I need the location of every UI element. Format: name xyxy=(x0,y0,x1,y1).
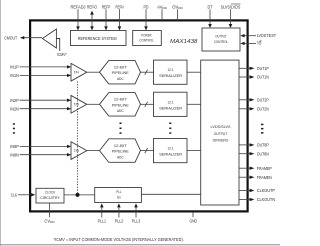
junction clock node xyxy=(76,193,80,197)
svg-text:12-BIT: 12-BIT xyxy=(114,64,128,69)
op-amp ICMV buffer xyxy=(42,29,59,51)
svg-text:CLKOUTP: CLKOUTP xyxy=(257,188,275,193)
wire T/H2 to ADC2 xyxy=(87,103,100,105)
svg-text:PIPELINE: PIPELINE xyxy=(112,70,129,75)
svg-text:ICMV*: ICMV* xyxy=(57,52,67,57)
pin CLK xyxy=(11,192,36,197)
pin PLL3 xyxy=(132,203,141,223)
svg-text:GND: GND xyxy=(189,218,197,223)
pin FRAMEN xyxy=(239,175,272,180)
svg-text:T/H: T/H xyxy=(74,71,80,75)
block: CLOCK CIRCUITRY xyxy=(36,188,64,203)
svg-text:MAX1438: MAX1438 xyxy=(170,39,198,45)
svg-text:SERIALIZER: SERIALIZER xyxy=(159,105,182,110)
svg-text:SERIALIZER: SERIALIZER xyxy=(159,152,182,157)
svg-text:CMOUT: CMOUT xyxy=(4,35,17,40)
pin REFP xyxy=(102,4,111,30)
svg-text:6x: 6x xyxy=(117,196,120,200)
svg-text:REFP: REFP xyxy=(102,4,111,9)
pin OUT2P xyxy=(239,97,269,102)
T/H amplifier channel 1 xyxy=(71,63,87,81)
pin REFIO xyxy=(87,4,98,30)
svg-text:PIPELINE: PIPELINE xyxy=(112,149,129,154)
page edge rule left xyxy=(0,0,1,246)
pin GND xyxy=(189,212,197,223)
ellipsis dots input labels column xyxy=(13,123,15,134)
svg-text:12-BIT: 12-BIT xyxy=(114,143,128,148)
svg-text:OUT1P: OUT1P xyxy=(257,66,269,71)
dashed clock distribution line xyxy=(77,81,79,193)
svg-text:T/H: T/H xyxy=(74,103,80,107)
ellipsis dots serializer column xyxy=(169,123,171,134)
pin PD xyxy=(144,4,149,30)
ADC channel 2: 12-BIT PIPELINE ADC xyxy=(100,93,141,117)
pin T/B-bar xyxy=(240,41,261,46)
pin IN1P xyxy=(10,65,71,70)
pin OUT2N xyxy=(239,106,269,111)
pin IN2N xyxy=(10,106,71,111)
svg-text:PIPELINE: PIPELINE xyxy=(112,102,129,107)
svg-text:CVDD: CVDD xyxy=(44,218,55,224)
wire serializer 1 to output drivers xyxy=(187,71,201,73)
serializer channel 8: 12:1 SERIALIZER xyxy=(154,139,188,163)
svg-text:ADC: ADC xyxy=(117,76,124,81)
svg-text:12-BIT: 12-BIT xyxy=(114,97,128,102)
svg-text:REFERENCE SYSTEM: REFERENCE SYSTEM xyxy=(78,36,117,41)
wire PLL to output drivers xyxy=(141,193,200,195)
svg-text:SERIALIZER: SERIALIZER xyxy=(159,73,182,78)
wire ADC2 to serializer (bus slash) xyxy=(141,102,154,107)
svg-text:ADC: ADC xyxy=(117,108,124,113)
serializer channel 2: 12:1 SERIALIZER xyxy=(154,92,188,116)
wire T/H8 to ADC8 xyxy=(87,150,100,152)
block: REFERENCE SYSTEM xyxy=(71,31,127,46)
T/H amplifier channel 8 xyxy=(71,142,87,160)
svg-text:CIRCUITRY: CIRCUITRY xyxy=(40,196,60,200)
wire ADC8 to serializer (bus slash) xyxy=(141,148,154,153)
pin CVDD xyxy=(44,203,55,224)
svg-text:PLL2: PLL2 xyxy=(115,218,124,223)
wire serializer 8 to output drivers xyxy=(187,150,201,152)
svg-text:ADC: ADC xyxy=(117,154,124,159)
pin IN8P xyxy=(10,144,71,149)
wire ADC1 to serializer (bus slash) xyxy=(141,70,154,75)
pin IN8N xyxy=(10,152,71,157)
svg-text:T/H: T/H xyxy=(74,149,80,153)
svg-text:CONTROL: CONTROL xyxy=(139,38,154,43)
svg-text:IN2N: IN2N xyxy=(10,106,19,111)
chip outline MAX1438 xyxy=(30,20,248,211)
wire T/H1 to ADC1 xyxy=(87,71,100,73)
pin DT xyxy=(208,4,213,28)
block: OUTPUT CONTROL xyxy=(202,28,240,51)
svg-text:12:1: 12:1 xyxy=(168,99,174,104)
svg-text:T/B: T/B xyxy=(257,41,262,46)
serializer channel 1: 12:1 SERIALIZER xyxy=(154,60,188,84)
svg-text:PLL: PLL xyxy=(116,190,121,194)
svg-text:OUT8P: OUT8P xyxy=(257,143,269,148)
pin OUT8P xyxy=(239,143,269,148)
page edge rule bottom xyxy=(0,244,280,245)
svg-text:12:1: 12:1 xyxy=(168,146,174,151)
svg-text:FRAMEP: FRAMEP xyxy=(257,166,272,171)
svg-text:LVDS/SLVS: LVDS/SLVS xyxy=(211,124,231,129)
pin CMOUT xyxy=(4,35,42,40)
svg-text:PLL1: PLL1 xyxy=(98,218,107,223)
svg-text:OUT1N: OUT1N xyxy=(257,75,269,80)
pin OUT8N xyxy=(239,151,269,156)
ellipsis dots output labels column xyxy=(261,124,263,134)
wire clock circuitry to PLL xyxy=(64,194,95,196)
pin IN1N xyxy=(10,73,71,78)
svg-text:CLKOUTN: CLKOUTN xyxy=(257,197,275,202)
block: POWER CONTROL xyxy=(133,31,162,46)
svg-text:PD: PD xyxy=(144,4,149,9)
svg-text:IN8N: IN8N xyxy=(10,152,19,157)
svg-text:CONTROL: CONTROL xyxy=(214,39,229,44)
pin CLKOUTP xyxy=(239,188,275,193)
svg-text:*ICMV = INPUT COMMON-MODE VOLT: *ICMV = INPUT COMMON-MODE VOLTAGE (INTER… xyxy=(54,237,184,242)
svg-text:12:1: 12:1 xyxy=(168,67,174,72)
svg-text:IN1P: IN1P xyxy=(10,65,19,70)
pin AVDD xyxy=(157,4,168,20)
svg-text:DT: DT xyxy=(208,4,213,9)
pin OVDD xyxy=(172,4,183,20)
svg-text:REFN: REFN xyxy=(116,4,124,9)
pin FRAMEP xyxy=(239,166,272,171)
pin LVDSTEST xyxy=(240,33,276,38)
svg-text:FRAMEN: FRAMEN xyxy=(257,175,272,180)
ADC channel 1: 12-BIT PIPELINE ADC xyxy=(100,60,141,83)
svg-text:REFIO: REFIO xyxy=(87,4,98,9)
pin PLL1 xyxy=(98,203,107,223)
pin REFN xyxy=(116,4,124,30)
pin REFADJ xyxy=(71,4,86,30)
pin CLKOUTN xyxy=(239,197,275,202)
svg-text:OUTPUT: OUTPUT xyxy=(214,131,228,136)
svg-text:CLK: CLK xyxy=(11,192,18,197)
svg-text:DRIVERS: DRIVERS xyxy=(213,137,229,142)
pin OUT1N xyxy=(239,75,269,80)
pin PLL2 xyxy=(115,203,124,223)
svg-text:CLOCK: CLOCK xyxy=(45,190,56,194)
wire serializer 2 to output drivers xyxy=(187,103,201,105)
svg-text:IN2P: IN2P xyxy=(10,98,19,103)
ellipsis dots ADC column xyxy=(120,123,122,134)
pin SLVS/LVDS-bar xyxy=(221,4,241,28)
svg-text:SLVS/LVDS: SLVS/LVDS xyxy=(221,4,241,9)
svg-text:OUTPUT: OUTPUT xyxy=(215,34,227,39)
svg-text:IN8P: IN8P xyxy=(10,144,19,149)
block: LVDS/SLVS OUTPUT DRIVERS xyxy=(201,60,239,205)
T/H amplifier channel 2 xyxy=(71,95,87,113)
pin OUT1P xyxy=(239,66,269,71)
svg-text:OUT2N: OUT2N xyxy=(257,106,269,111)
pin IN2P xyxy=(10,98,71,103)
svg-text:IN1N: IN1N xyxy=(10,73,19,78)
svg-text:LVDSTEST: LVDSTEST xyxy=(257,33,277,38)
svg-text:OUT8N: OUT8N xyxy=(257,151,269,156)
ADC channel 8: 12-BIT PIPELINE ADC xyxy=(100,139,141,163)
svg-text:OUT2P: OUT2P xyxy=(257,97,269,102)
svg-text:PLL3: PLL3 xyxy=(132,218,141,223)
svg-text:REFADJ: REFADJ xyxy=(71,4,86,9)
block: PLL 6x xyxy=(95,188,142,203)
